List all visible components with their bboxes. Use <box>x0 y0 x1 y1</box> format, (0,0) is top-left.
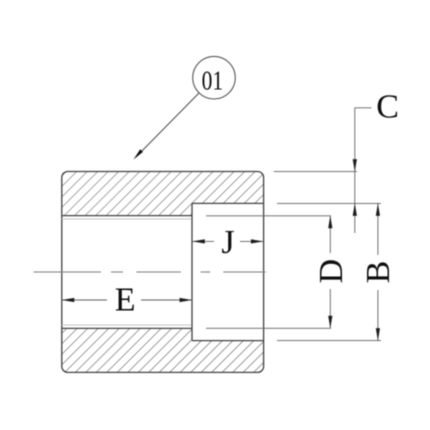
extension line, outer top <box>274 171 357 173</box>
dimension E line, left segment <box>62 299 107 301</box>
svg-text:01: 01 <box>202 64 224 95</box>
section hatch, upper wall of bushing <box>62 172 264 216</box>
thread crest line, lower <box>62 324 192 326</box>
section hatch, lower wall of bushing <box>62 328 264 372</box>
dimension J arrow right <box>251 239 264 243</box>
svg-text:J: J <box>221 224 234 261</box>
bore upper edge <box>62 215 192 217</box>
part outline: outer profile of bushing body <box>62 172 264 373</box>
svg-text:B: B <box>360 261 397 284</box>
dimension D line, lower segment <box>329 289 331 328</box>
dimension B line, lower segment <box>377 290 379 341</box>
bore lower edge <box>62 327 192 329</box>
dimension E arrow right <box>180 298 193 302</box>
dimension C arrow (up onto counterbore top) <box>353 203 357 216</box>
dimension J line, left segment <box>192 240 214 242</box>
balloon circle <box>193 56 236 99</box>
dimension C horizontal leader segment <box>355 107 372 109</box>
svg-text:C: C <box>376 89 399 126</box>
svg-text:E: E <box>115 282 136 319</box>
dimension D line, upper segment <box>329 216 331 253</box>
dimension D arrow up <box>328 216 332 229</box>
balloon leader arrowhead <box>134 149 144 159</box>
dimension B arrow down <box>376 328 380 341</box>
dimension E arrow left <box>62 298 75 302</box>
extension line, counterbore bottom <box>277 340 381 342</box>
extension line, bore top <box>206 215 331 217</box>
dimension E line, right segment <box>141 299 192 301</box>
counterbore bottom face <box>191 203 193 340</box>
dimension J arrow left <box>192 239 205 243</box>
dimension C arrow (down onto outer top) <box>353 159 357 172</box>
svg-text:D: D <box>313 259 350 284</box>
dimension C vertical line <box>354 108 356 233</box>
counterbore lower edge <box>192 340 264 342</box>
extension line, bore bottom <box>206 327 331 329</box>
dimension B line, upper segment <box>377 203 379 255</box>
balloon leader line <box>136 93 199 157</box>
thread crest line, upper <box>62 218 192 220</box>
centerline (dash-dot axis) <box>34 271 266 273</box>
dimension J line, right segment <box>240 240 263 242</box>
extension line, counterbore top <box>277 202 381 204</box>
dimension B arrow up <box>376 203 380 216</box>
dimension D arrow down <box>328 316 332 329</box>
counterbore upper edge <box>192 202 264 204</box>
